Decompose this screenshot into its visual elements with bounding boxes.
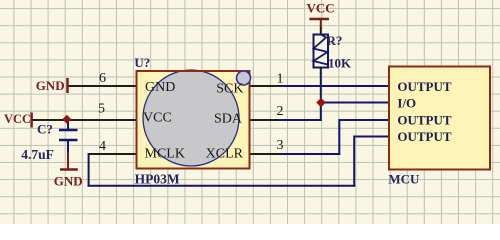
svg-text:6: 6 — [99, 71, 106, 86]
svg-text:MCU: MCU — [388, 172, 420, 187]
svg-text:HP03M: HP03M — [135, 172, 180, 187]
svg-text:I/O: I/O — [397, 96, 416, 111]
svg-text:C?: C? — [37, 122, 53, 137]
svg-text:4: 4 — [99, 139, 106, 154]
svg-text:SDA: SDA — [214, 112, 243, 127]
svg-text:4.7uF: 4.7uF — [21, 147, 54, 162]
svg-text:2: 2 — [277, 104, 284, 119]
svg-text:OUTPUT: OUTPUT — [397, 113, 452, 128]
svg-text:3: 3 — [277, 138, 284, 153]
svg-text:OUTPUT: OUTPUT — [397, 129, 452, 144]
svg-text:R?: R? — [327, 33, 343, 48]
svg-text:GND: GND — [36, 78, 65, 93]
svg-text:VCC: VCC — [4, 112, 31, 126]
svg-text:VCC: VCC — [307, 1, 335, 16]
svg-text:MCLK: MCLK — [145, 147, 185, 162]
svg-text:10K: 10K — [328, 56, 352, 71]
svg-text:GND: GND — [54, 174, 83, 189]
svg-text:5: 5 — [98, 102, 105, 117]
svg-text:XCLR: XCLR — [206, 147, 244, 162]
svg-text:U?: U? — [134, 55, 150, 70]
svg-text:OUTPUT: OUTPUT — [397, 79, 452, 94]
svg-text:VCC: VCC — [143, 111, 172, 126]
svg-text:SCK: SCK — [216, 82, 243, 97]
svg-text:1: 1 — [277, 72, 284, 87]
svg-text:GND: GND — [145, 80, 175, 95]
